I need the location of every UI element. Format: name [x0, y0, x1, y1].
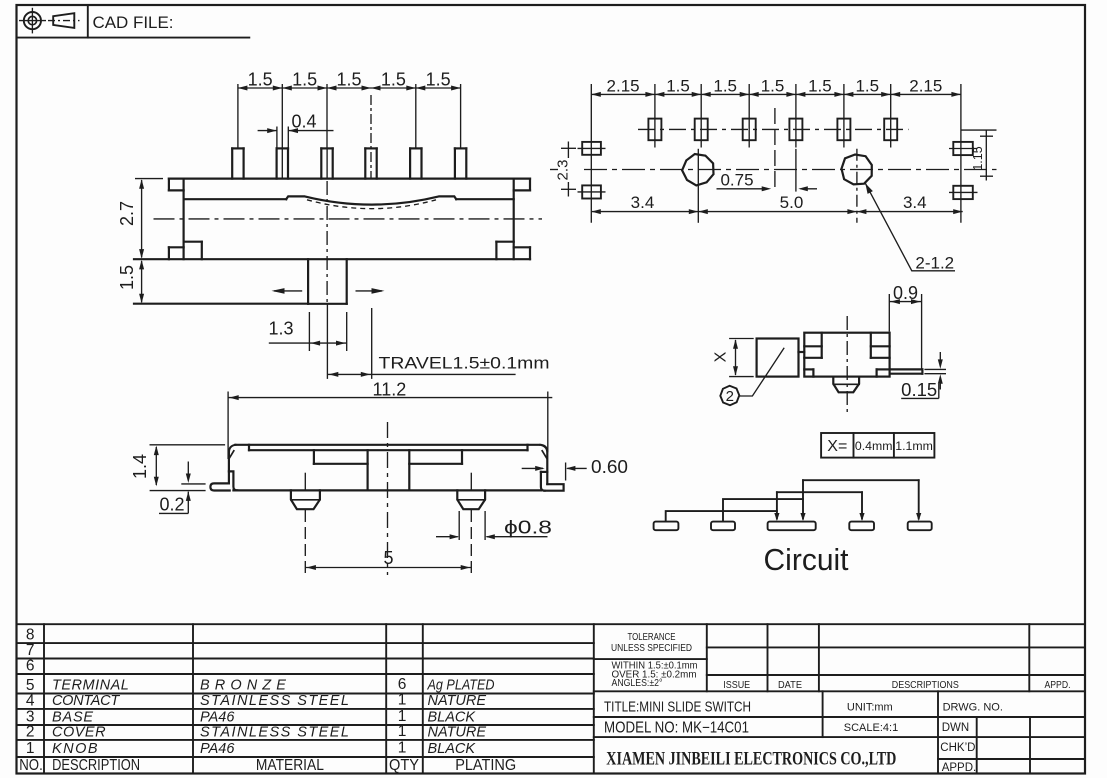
svg-text:KNOB: KNOB: [52, 741, 99, 757]
svg-text:COVER: COVER: [52, 725, 106, 741]
svg-text:APPD.: APPD.: [942, 762, 977, 774]
side view: right notches: [870, 333, 872, 358]
svg-text:CONTACT: CONTACT: [52, 693, 120, 709]
dimension 0.9: [888, 294, 890, 332]
svg-text:Ag PLATED: Ag PLATED: [427, 678, 495, 694]
svg-text:PA46: PA46: [200, 741, 235, 757]
svg-text:3.4: 3.4: [631, 193, 655, 212]
circuit wire node A to pad4: [777, 491, 862, 493]
svg-text:0.15: 0.15: [901, 380, 937, 400]
callout leader 2-1.2 holes: [865, 183, 955, 271]
front view: knob stem: [307, 259, 309, 304]
svg-text:0.2: 0.2: [159, 495, 184, 515]
svg-text:2.7: 2.7: [117, 201, 137, 226]
svg-text:DWN: DWN: [942, 722, 969, 734]
svg-text:BASE: BASE: [52, 710, 94, 726]
svg-text:1.15: 1.15: [971, 146, 985, 170]
svg-text:MODEL NO: MK−14C01: MODEL NO: MK−14C01: [604, 719, 749, 736]
pcb pattern: main horizontal centerline: [550, 169, 558, 171]
svg-text:1: 1: [398, 739, 407, 756]
front view: mounting ear bottom-left: [168, 247, 170, 259]
svg-text:5.0: 5.0: [780, 193, 804, 212]
side elevation: base recess: [314, 463, 368, 465]
svg-text:0.60: 0.60: [591, 457, 628, 477]
side elevation: cover top inner line: [249, 449, 528, 451]
svg-text:2-1.2: 2-1.2: [915, 254, 954, 273]
circuit wire node B to pad5: [803, 479, 919, 481]
dimension peg spacing 5: [305, 567, 471, 569]
svg-text:0.75: 0.75: [720, 171, 753, 190]
svg-text:BLACK: BLACK: [428, 741, 477, 757]
svg-text:CAD FILE:: CAD FILE:: [93, 13, 174, 32]
side elevation: left rolled edge: [229, 445, 235, 483]
dimension 0.2 standoff: [181, 483, 205, 485]
svg-text:1: 1: [26, 740, 35, 757]
svg-text:4: 4: [26, 692, 35, 709]
parts table grid: [17, 623, 1086, 625]
dimension pin pitch 1.5 x5: [238, 87, 461, 89]
title header box: [17, 37, 250, 39]
dimension 1.15 vertical: [961, 129, 997, 131]
front view: cover seam line: [184, 198, 287, 200]
side view: knob: [757, 339, 799, 377]
svg-text:5: 5: [383, 548, 393, 568]
svg-text:1.4: 1.4: [130, 454, 150, 479]
svg-text:1: 1: [398, 692, 407, 709]
front view: inner step bottom-left: [201, 242, 203, 260]
svg-text:TRAVEL1.5±0.1mm: TRAVEL1.5±0.1mm: [379, 354, 550, 373]
svg-text:NATURE: NATURE: [428, 693, 487, 709]
front view: 6 terminal pins: [231, 148, 233, 178]
circuit: terminal pad 4: [849, 522, 874, 531]
dimension 0.60 foot length: [522, 467, 543, 469]
side elevation: center boss: [367, 450, 369, 490]
side elevation: locating peg left: [291, 490, 320, 509]
svg-text:Circuit: Circuit: [764, 542, 849, 577]
svg-text:TERMINAL: TERMINAL: [52, 678, 129, 694]
svg-text:7: 7: [26, 642, 35, 659]
svg-text:2: 2: [726, 388, 734, 405]
svg-text:BRONZE: BRONZE: [200, 678, 291, 694]
slide travel arrows: [274, 290, 302, 292]
svg-text:1.1mm: 1.1mm: [895, 439, 933, 453]
dimension peg dia 0.8: [458, 511, 460, 540]
pcb pattern: mounting hole right: [842, 155, 872, 185]
balloon 2 knob callout: [720, 386, 739, 405]
svg-text:1.5: 1.5: [336, 70, 361, 90]
side elevation: right rolled edge: [541, 445, 548, 484]
front view: mounting ear top-right: [529, 179, 531, 191]
svg-text:X: X: [713, 351, 730, 362]
side view: foot right: [875, 369, 877, 376]
svg-text:PA46: PA46: [200, 710, 235, 726]
dimension stem height 1.5: [141, 261, 143, 302]
svg-text:6: 6: [398, 676, 407, 693]
svg-text:SCALE:4:1: SCALE:4:1: [844, 722, 898, 734]
svg-text:1.5: 1.5: [808, 77, 832, 96]
svg-text:NO.: NO.: [19, 757, 43, 774]
svg-text:APPD.: APPD.: [1045, 679, 1071, 691]
circuit: terminal pad 1: [654, 522, 679, 531]
dimension 2.3 vertical: [567, 142, 569, 159]
dimension 0.15 terminal thickness: [924, 368, 946, 370]
title block grid: [594, 716, 1085, 718]
side elevation: right terminal foot: [544, 484, 563, 491]
svg-text:UNLESS SPECIFIED: UNLESS SPECIFIED: [611, 642, 692, 654]
svg-text:6: 6: [26, 658, 35, 675]
dimension body height 2.7: [135, 178, 163, 180]
svg-text:1: 1: [398, 723, 407, 740]
svg-text:CHK’D: CHK’D: [940, 742, 975, 754]
dimension travel 1.5+-0.1mm: [371, 308, 373, 379]
svg-text:XIAMEN JINBEILI ELECTRONICS CO: XIAMEN JINBEILI ELECTRONICS CO.,LTD: [606, 749, 896, 770]
pcb pattern: corner pad lower-left: [582, 185, 601, 198]
dimension pin width 0.4: [276, 127, 278, 148]
svg-text:ISSUE: ISSUE: [723, 679, 750, 691]
side view: body: [804, 333, 889, 377]
side view: terminal tab: [890, 368, 923, 370]
svg-text:1.5: 1.5: [292, 70, 317, 90]
front view: vertical centerline through knob: [326, 181, 328, 302]
revision header row: [767, 624, 769, 691]
seating plane extension line: [134, 303, 308, 305]
pcb pattern: mounting hole left: [682, 154, 713, 185]
svg-text:BLACK: BLACK: [428, 710, 477, 726]
svg-text:3.4: 3.4: [903, 193, 927, 212]
circuit wire pad1 to node A: [666, 511, 777, 521]
side elevation: locating peg right: [457, 490, 485, 509]
side view: foot left: [812, 369, 814, 376]
circuit: terminal pad 5: [908, 522, 932, 531]
svg-text:1.5: 1.5: [761, 77, 785, 96]
pcb pattern: slider position centerline: [774, 108, 776, 192]
svg-text:STAINLESS STEEL: STAINLESS STEEL: [200, 725, 350, 741]
svg-text:1.5: 1.5: [248, 70, 273, 90]
pcb pattern: pad pitch dimension line 2.15/1.5x5/2.15: [591, 93, 961, 95]
front view: spring dome hidden line: [307, 200, 436, 209]
svg-text:0.9: 0.9: [893, 283, 918, 303]
peg centerlines: [304, 510, 306, 574]
svg-text:PLATING: PLATING: [455, 757, 516, 774]
svg-text:UNIT:mm: UNIT:mm: [847, 701, 893, 713]
svg-text:ANGLES:±2°: ANGLES:±2°: [612, 677, 663, 689]
svg-text:1.5: 1.5: [666, 77, 690, 96]
pcb pattern: pad row centerline: [638, 128, 909, 130]
svg-text:2.15: 2.15: [909, 77, 942, 96]
svg-text:1.5: 1.5: [713, 77, 737, 96]
front view: horizontal centerline: [154, 218, 543, 220]
svg-text:QTY: QTY: [389, 757, 419, 774]
side view: left notches: [821, 333, 823, 358]
circuit: terminal pad 2: [711, 522, 735, 531]
svg-text:2.15: 2.15: [607, 77, 640, 96]
dimension chain 3.4 / 5.0 / 3.4: [591, 211, 962, 213]
svg-text:2.3: 2.3: [555, 160, 572, 181]
first-angle projection symbol: cone frustum: [53, 13, 74, 28]
svg-text:DESCRIPTION: DESCRIPTION: [52, 757, 140, 774]
pcb pattern: corner pad upper-right: [953, 142, 973, 155]
svg-text:STAINLESS STEEL: STAINLESS STEEL: [200, 693, 350, 709]
pcb pattern: extension lines: [590, 84, 592, 223]
svg-text:0.4: 0.4: [292, 112, 317, 132]
svg-text:1.3: 1.3: [268, 319, 293, 339]
svg-text:1.5: 1.5: [855, 77, 879, 96]
tolerance box: [706, 624, 708, 691]
dimension overall width 11.2: [227, 392, 229, 460]
svg-text:1.5: 1.5: [381, 70, 406, 90]
dimension X knob height: [729, 338, 754, 340]
svg-text:X=: X=: [827, 438, 847, 455]
front view: pin-pitch extension lines: [237, 84, 239, 148]
side elevation: bottom line: [233, 489, 541, 491]
svg-text:TITLE:MINI SLIDE SWITCH: TITLE:MINI SLIDE SWITCH: [604, 698, 751, 715]
svg-text:DESCRIPTIONS: DESCRIPTIONS: [892, 679, 959, 691]
svg-text:11.2: 11.2: [373, 380, 407, 400]
dimension knob width 1.3: [308, 312, 310, 351]
svg-text:0.4mm: 0.4mm: [855, 439, 893, 453]
pcb pattern: six signal pads: [648, 119, 661, 141]
X value table: [821, 433, 934, 458]
pcb pattern: corner pad upper-left: [582, 142, 601, 155]
svg-text:MATERIAL: MATERIAL: [256, 757, 324, 774]
front view: mounting ear top-left: [168, 179, 170, 191]
svg-text:1.5: 1.5: [117, 265, 137, 290]
dimension height 1.4: [155, 447, 157, 485]
peg centerline stubs inside body: [304, 473, 306, 490]
side elevation: left terminal foot: [210, 483, 229, 490]
svg-text:DRWG. NO.: DRWG. NO.: [943, 701, 1003, 713]
front view: pin center lines through pins 2 and 3: [281, 148, 283, 178]
front view: mounting ear bottom-right: [529, 247, 531, 259]
front view: spring dome: [286, 196, 456, 204]
svg-text:2: 2: [26, 723, 35, 740]
side elevation: vertical centerline: [387, 422, 389, 575]
svg-text:ϕ0.8: ϕ0.8: [504, 518, 552, 538]
pcb pattern: corner pad lower-right: [953, 186, 973, 199]
svg-text:NATURE: NATURE: [428, 725, 487, 741]
first-angle projection symbol: target circle: [24, 12, 41, 29]
side view: vertical centerline: [846, 316, 848, 413]
circuit: common pad 3: [768, 522, 816, 531]
dimension 0.75: [717, 188, 769, 190]
circuit wire pad2 to node B: [723, 499, 803, 521]
svg-text:DATE: DATE: [778, 679, 802, 691]
svg-text:1.5: 1.5: [426, 70, 451, 90]
front view: inner step bottom-right: [495, 242, 497, 260]
side view: locating peg: [833, 377, 859, 393]
front view: switch body outline: [169, 178, 530, 180]
side elevation: top outline: [235, 444, 539, 446]
